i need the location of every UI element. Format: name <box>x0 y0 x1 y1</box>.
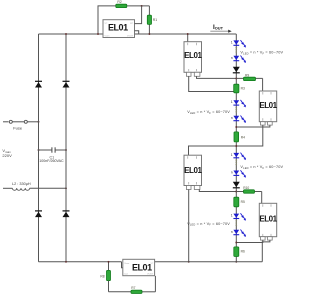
wire R10 branch <box>236 192 261 204</box>
wire bridge rail 2 <box>65 34 67 262</box>
svg-text:R6: R6 <box>241 250 245 254</box>
svg-text:Iout: Iout <box>124 272 128 275</box>
LED string 3 first LED <box>231 153 246 161</box>
wire bottom bus left <box>39 261 123 268</box>
svg-text:Fuse: Fuse <box>13 126 23 131</box>
svg-text:VOUT: VOUT <box>127 36 134 38</box>
svg-text:1: 1 <box>231 100 233 104</box>
diode D1 <box>35 81 42 87</box>
wire bridge rail 1 <box>38 34 40 262</box>
dots string 3 <box>236 159 238 165</box>
resistor R4 <box>234 132 245 142</box>
resistor R2 <box>116 0 127 7</box>
wire AC live input <box>3 121 9 123</box>
wire L2 left pin to bottom bus <box>188 190 190 263</box>
wire R1 left pin to L2 <box>189 125 263 155</box>
svg-text:n: n <box>231 230 233 234</box>
resistor R1 <box>141 5 158 35</box>
label V_LED group 3 <box>240 165 283 170</box>
svg-text:R4: R4 <box>241 135 245 139</box>
pin stubs under L2 <box>186 186 200 190</box>
wire L2 right pin to node <box>199 190 237 193</box>
svg-text:R9: R9 <box>245 73 249 77</box>
svg-text:IOUT: IOUT <box>213 24 224 31</box>
pin stubs under R2 <box>261 237 273 240</box>
svg-text:EL01: EL01 <box>108 23 128 33</box>
wire L1 top stub <box>187 33 189 42</box>
svg-text:Vsen: Vsen <box>105 36 111 38</box>
pin stubs under R1 <box>261 122 273 125</box>
op-amp U3 EL01 right box 1 <box>259 91 277 122</box>
junction rail to bus <box>235 261 237 263</box>
LED string 4 first LED <box>231 213 246 221</box>
wire R9 branch <box>236 78 262 91</box>
diode D4 <box>63 211 70 217</box>
op-amp U1 EL01 top box <box>103 20 135 38</box>
svg-text:VOUT: VOUT <box>147 273 154 275</box>
svg-text:R2: R2 <box>117 0 121 4</box>
LED string 3 nth LED <box>231 170 246 178</box>
dots string 4 <box>236 220 238 226</box>
resistor R10 <box>243 186 254 193</box>
svg-text:EL01: EL01 <box>132 262 152 272</box>
wire R2 right pin to bus <box>262 240 270 262</box>
svg-text:Vsen: Vsen <box>124 263 130 265</box>
label V_LED group 4 <box>187 222 230 227</box>
wire L1 left pin to rail <box>189 76 238 92</box>
fuse F1 <box>9 120 27 130</box>
diode D2 <box>63 81 70 87</box>
resistor R9 <box>244 73 256 80</box>
svg-text:EL01: EL01 <box>259 101 277 110</box>
wire top bus <box>39 33 237 35</box>
svg-text:1: 1 <box>231 153 233 157</box>
wire R2 left pin to rail <box>235 240 262 243</box>
svg-text:n: n <box>231 116 233 120</box>
svg-text:R5: R5 <box>241 200 245 204</box>
svg-text:R3: R3 <box>241 86 245 90</box>
resistor R7 <box>131 286 142 293</box>
inductor L2 330uH <box>3 182 67 191</box>
svg-text:VLED = n * VF = 60~70V: VLED = n * VF = 60~70V <box>187 222 230 227</box>
op-amp U5 EL01 right box 2 <box>259 203 277 236</box>
wire bottom bus right <box>155 261 263 263</box>
wire bottom sense <box>109 276 156 292</box>
label V_LED group 1 <box>240 51 283 56</box>
wire fuse to bridge <box>27 121 39 123</box>
wire R1 right pin to rail <box>235 125 270 128</box>
svg-text:220V: 220V <box>2 153 12 158</box>
svg-text:100nF/260VAC: 100nF/260VAC <box>39 159 64 163</box>
wire L1 right pin to node <box>197 76 238 79</box>
capacitor C1 <box>38 147 67 163</box>
svg-text:1: 1 <box>231 40 233 44</box>
LED string 2 first LED <box>231 100 246 108</box>
svg-text:n: n <box>231 56 233 60</box>
svg-text:L2 : 330µH: L2 : 330µH <box>12 182 31 186</box>
wire LED rail <box>235 34 237 262</box>
LED string 1 first LED <box>231 40 246 48</box>
svg-text:R1: R1 <box>153 18 157 22</box>
dots string 1 <box>236 47 238 53</box>
svg-text:EL01: EL01 <box>184 166 202 175</box>
LED string 1 nth LED <box>231 56 246 64</box>
svg-text:EL01: EL01 <box>184 51 202 60</box>
wire R2 loop <box>97 6 149 35</box>
resistor R6 <box>234 247 245 257</box>
svg-text:R7: R7 <box>131 286 135 290</box>
resistor R8 <box>100 261 110 292</box>
svg-text:1: 1 <box>231 214 233 218</box>
op-amp U6 EL01 bottom box <box>123 259 155 275</box>
resistor R5 <box>234 197 245 207</box>
diode DS1 <box>233 67 240 73</box>
wire box T right pin jog <box>135 31 139 34</box>
pin stubs under L1 <box>186 72 200 76</box>
diode D3 <box>35 211 42 217</box>
svg-text:R10: R10 <box>243 186 249 190</box>
svg-text:EL01: EL01 <box>259 215 277 224</box>
label Iout <box>210 24 231 33</box>
op-amp U2 EL01 left box 1 <box>184 42 202 73</box>
dots string 2 <box>236 107 238 113</box>
wire box T top pin <box>135 6 142 24</box>
diode DS2 <box>233 182 240 188</box>
resistor R3 <box>234 84 245 93</box>
svg-text:n: n <box>231 171 233 175</box>
label V_main 220V <box>2 148 12 158</box>
label V_LED group 2 <box>187 110 230 115</box>
svg-text:R8: R8 <box>100 275 104 279</box>
LED string 2 nth LED <box>231 116 246 124</box>
op-amp U4 EL01 left box 2 <box>184 155 202 185</box>
LED string 4 nth LED <box>231 230 246 238</box>
